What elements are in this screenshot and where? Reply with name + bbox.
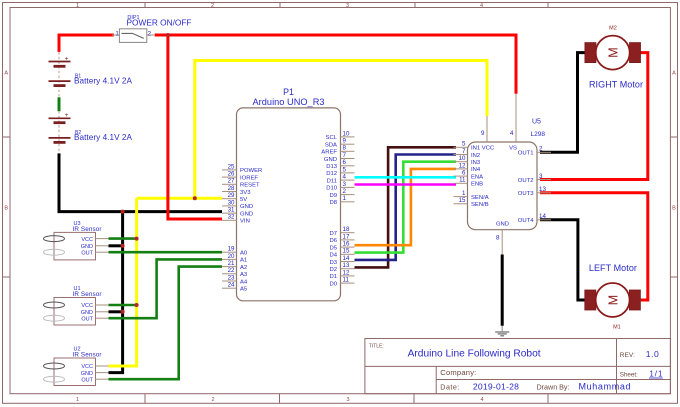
P1 pin 2 D9 [329,188,354,199]
svg-text:2019-01-28: 2019-01-28 [473,382,519,392]
svg-text:IN2: IN2 [471,153,480,159]
svg-text:4: 4 [510,130,514,137]
svg-text:5V: 5V [240,197,247,203]
P1 pin 4 D11 [327,174,355,185]
svg-text:IR Sensor: IR Sensor [73,226,102,233]
svg-text:Muhammad: Muhammad [579,382,631,392]
svg-text:GND: GND [240,204,253,210]
svg-text:IR Sensor: IR Sensor [73,291,102,298]
svg-text:A4: A4 [240,279,248,285]
svg-text:D10: D10 [326,186,338,192]
U2 pin VCC [81,364,108,370]
svg-text:4: 4 [480,3,483,9]
svg-text:9: 9 [481,130,485,137]
P1 pin 20 A1 [222,253,247,264]
junction J4 [135,237,139,241]
svg-text:30: 30 [228,199,235,206]
U2 pin GND [81,371,109,377]
svg-text:IOREF: IOREF [240,175,258,181]
svg-text:14: 14 [539,213,546,220]
svg-text:D1: D1 [329,274,337,280]
svg-text:29: 29 [228,192,235,199]
svg-text:Sheet:: Sheet: [620,371,638,378]
junction J1 [166,33,170,37]
svg-text:VCC: VCC [81,237,93,243]
P1 pin 10 SCL [326,130,355,141]
svg-text:OUT2: OUT2 [518,178,534,184]
IC P1 Arduino UNO_R3 body [237,87,341,301]
wire: 5V to L298 VCC (yellow) [195,61,487,199]
svg-text:SDA: SDA [325,143,337,149]
svg-text:GND: GND [324,157,337,163]
P1 pin 23 A4 [222,274,248,285]
wire: switch pin 2 to L298 VS (red rail) [155,35,516,94]
svg-text:Arduino UNO_R3: Arduino UNO_R3 [253,97,325,107]
svg-text:+: + [65,112,69,119]
svg-text:A: A [672,70,676,76]
wire: D4 to IN3 (bright green) [355,162,457,253]
svg-text:2: 2 [211,3,214,9]
svg-text:POWER: POWER [240,168,262,174]
svg-text:20: 20 [228,253,235,260]
U3 pin VCC [81,237,108,243]
wire: U3 VCC link (green) [109,237,137,240]
svg-text:7: 7 [462,148,466,155]
wire: U2 OUT to A2 (dark green) [109,267,223,380]
svg-text:D9: D9 [329,193,337,199]
U1 pin GND [81,310,109,316]
U5 pin 9 VCC [481,116,495,152]
svg-text:Company:: Company: [440,368,476,377]
svg-text:GND: GND [240,211,253,217]
U5 pin 11 ENB [454,177,484,188]
junction J6 [135,303,139,307]
battery B2 [49,111,133,153]
svg-text:23: 23 [228,274,235,281]
svg-text:IN1: IN1 [471,146,480,152]
svg-text:21: 21 [228,260,235,267]
P1 pin 13 D2 [329,262,354,273]
wire: OUT3 to left motor - (red) [540,193,648,300]
svg-text:1: 1 [343,195,347,202]
svg-text:1: 1 [115,30,119,37]
svg-text:RESET: RESET [240,183,260,189]
P1 pin 31 GND [222,207,253,218]
svg-text:17: 17 [343,233,350,240]
svg-text:Arduino Line Following Robot: Arduino Line Following Robot [408,349,541,360]
P1 pin 18 D7 [329,226,354,237]
switch DIP1 POWER ON/OFF [112,15,192,42]
wire: OUT4 to left motor + (black) [540,220,585,300]
svg-text:D6: D6 [329,238,337,244]
svg-text:32: 32 [228,214,235,221]
svg-text:D3: D3 [329,260,337,266]
svg-text:13: 13 [343,262,350,269]
U5 pin 5 IN1 [454,141,481,152]
wire: 5V rail to IR sensors (yellow) [109,198,137,366]
svg-text:VIN: VIN [240,219,250,225]
svg-text:3: 3 [346,397,349,403]
wire: green link between battery B1 and B2 [58,97,61,111]
svg-text:M2: M2 [609,25,617,31]
U3 pin GND [81,244,109,250]
svg-text:ENB: ENB [471,182,483,188]
IR sensor U3 [44,221,102,260]
motor M1 LEFT Motor [585,263,641,331]
svg-text:OUT3: OUT3 [518,191,534,197]
P1 pin 14 D3 [329,255,354,266]
U5 pin 3 OUT2 [518,173,551,184]
svg-text:POWER ON/OFF: POWER ON/OFF [127,18,192,28]
svg-text:A0: A0 [240,251,248,257]
U5 pin 2 OUT1 [518,146,551,157]
svg-text:U5: U5 [532,119,541,126]
ground [495,326,509,336]
svg-text:A2: A2 [240,265,247,271]
svg-text:8: 8 [343,145,347,152]
svg-text:D7: D7 [329,231,337,237]
svg-text:12: 12 [459,162,466,169]
svg-text:OUT1: OUT1 [518,151,534,157]
svg-text:3V3: 3V3 [240,190,251,196]
svg-text:RIGHT Motor: RIGHT Motor [589,80,643,90]
svg-text:5: 5 [462,141,466,148]
svg-text:27: 27 [228,178,235,185]
svg-text:26: 26 [228,171,235,178]
svg-text:2: 2 [148,30,152,37]
svg-text:GND: GND [81,310,93,316]
P1 pin 1 D8 [329,195,354,206]
P1 pin 30 GND [222,199,253,210]
P1 pin 17 D6 [329,233,354,244]
svg-text:OUT: OUT [81,316,93,322]
wire: U1 GND link (black) [109,310,123,313]
svg-text:3: 3 [346,3,349,9]
wire: D5 to IN4 (orange) [355,169,457,245]
battery B1 [49,52,133,97]
svg-text:1: 1 [76,3,79,9]
U5 pin 10 IN3 [454,155,481,166]
svg-text:9: 9 [343,138,347,145]
wire: battery B1 + to switch pin 1 (red) [59,35,114,52]
P1 pin 29 5V [222,192,247,203]
svg-text:Battery 4.1V 2A: Battery 4.1V 2A [74,76,133,85]
svg-text:19: 19 [228,246,235,253]
svg-text:Battery 4.1V 2A: Battery 4.1V 2A [74,133,133,142]
svg-text:ENA: ENA [471,174,483,180]
P1 pin 19 A0 [222,246,248,257]
svg-text:1: 1 [462,190,466,197]
motor M2 RIGHT Motor [585,25,643,89]
svg-text:VCC: VCC [81,303,93,309]
P1 pin 8 AREF [321,145,354,156]
wire: U1 VCC link (green) [109,304,137,307]
junction J3 [121,210,125,214]
P1 pin 28 3V3 [222,185,251,196]
P1 pin 6 D13 [326,159,354,170]
U5 pin 4 VS [509,94,517,152]
svg-text:28: 28 [228,185,235,192]
wire: 5V to Arduino pin 29 (yellow) [137,197,222,200]
wire: battery B2 - to Arduino GND (black) [59,153,222,211]
wire: U3 GND link (black) [109,244,123,247]
U2 pin OUT [81,377,108,383]
P1 pin 7 GND [324,152,355,163]
svg-text:SEN/B: SEN/B [471,202,489,208]
svg-text:18: 18 [343,226,350,233]
svg-text:D5: D5 [329,245,337,251]
svg-text:24: 24 [228,282,235,289]
svg-text:B: B [672,205,676,211]
svg-text:6: 6 [343,159,347,166]
svg-text:AREF: AREF [321,150,337,156]
svg-text:SCL: SCL [326,135,338,141]
svg-text:OUT: OUT [81,250,93,256]
wire: D3 to IN2 (navy) [355,155,457,260]
P1 pin 12 D1 [329,269,354,280]
svg-text:GND: GND [496,222,509,228]
P1 pin 22 A3 [222,267,248,278]
svg-text:1.0: 1.0 [646,349,659,359]
svg-text:OUT: OUT [81,377,93,383]
P1 pin 9 SDA [325,138,355,149]
U5 pin 13 OUT3 [518,186,551,197]
svg-text:D2: D2 [329,267,337,273]
svg-text:25: 25 [228,163,235,170]
svg-text:SEN/A: SEN/A [471,195,489,201]
svg-text:7: 7 [343,152,347,159]
svg-text:A: A [4,70,8,76]
svg-text:14: 14 [343,255,350,262]
svg-text:IR Sensor: IR Sensor [73,352,102,359]
svg-text:OUT4: OUT4 [518,218,534,224]
svg-text:13: 13 [539,186,546,193]
U1 pin VCC [81,303,108,309]
P1 pin 3 D10 [326,181,354,192]
wire: L298 GND pin 8 to ground (black) [501,255,504,326]
svg-text:A1: A1 [240,258,247,264]
svg-text:+: + [65,56,69,63]
svg-text:16: 16 [343,241,350,248]
U5 pin 7 IN2 [454,148,481,159]
svg-text:D12: D12 [326,171,337,177]
U1 pin OUT [81,316,108,322]
svg-text:GND: GND [81,244,93,250]
title block [365,339,671,394]
svg-text:1/1: 1/1 [649,369,663,378]
U5 pin 14 OUT4 [518,213,551,224]
P1 pin 16 D5 [329,241,354,252]
svg-text:Drawn By:: Drawn By: [537,383,570,392]
svg-text:15: 15 [459,197,466,204]
U5 pin 15 SEN/B [454,197,489,208]
U3 pin OUT [81,250,108,256]
wire: D10 to ENB (magenta) [355,183,457,186]
svg-text:D13: D13 [326,164,338,170]
junction J7 [121,310,125,314]
svg-text:1: 1 [76,397,79,403]
U5 pin 1 SEN/A [454,190,489,201]
IC U5 L298 body [468,119,546,230]
wire: U3 OUT to A0 (dark green) [109,251,223,254]
wire: OUT2 to right motor - (red) [540,53,648,180]
svg-text:10: 10 [343,130,350,137]
svg-text:4: 4 [480,397,483,403]
U5 pin 8 GND [496,222,509,255]
P1 pin 27 RESET [222,178,260,189]
svg-text:D0: D0 [329,281,337,287]
svg-text:2: 2 [343,188,347,195]
svg-text:Date:: Date: [440,383,459,392]
svg-text:VCC: VCC [81,364,93,370]
svg-text:3: 3 [539,173,543,180]
svg-text:D4: D4 [329,253,337,259]
svg-text:VCC: VCC [482,146,495,152]
svg-text:2: 2 [539,146,543,153]
wire: D2 to IN1 (dark brown) [355,147,457,267]
wire: U1 OUT to A1 (dark green) [109,259,223,318]
P1 pin 32 VIN [222,214,250,225]
svg-text:11: 11 [459,177,466,184]
svg-text:8: 8 [496,234,500,241]
junction J2 [193,196,197,200]
svg-text:D11: D11 [327,178,337,184]
svg-text:10: 10 [459,155,466,162]
P1 pin 5 D12 [326,166,354,177]
wire: OUT1 to right motor + (black) [540,53,585,153]
svg-text:IN3: IN3 [471,160,481,166]
svg-text:4: 4 [343,174,347,181]
svg-text:12: 12 [343,269,350,276]
IR sensor U2 [44,347,102,386]
U5 pin 6 ENA [454,170,484,181]
U5 pin 12 IN4 [454,162,481,173]
svg-text:B: B [4,205,8,211]
P1 pin 15 D4 [329,248,354,259]
svg-text:31: 31 [228,207,235,214]
wire: D11 to ENA (cyan) [355,176,457,179]
svg-text:M1: M1 [613,325,621,331]
svg-text:15: 15 [343,248,350,255]
svg-text:A3: A3 [240,272,248,278]
svg-text:5: 5 [343,166,347,173]
svg-text:6: 6 [462,170,466,177]
wire: GND rail to IR sensors (black) [109,212,123,373]
P1 pin 26 IOREF [222,171,258,182]
svg-text:2: 2 [211,397,214,403]
IR sensor U1 [44,286,102,325]
svg-text:11: 11 [343,277,350,284]
P1 pin 25 POWER [222,163,262,174]
svg-text:22: 22 [228,267,235,274]
junction J5 [121,244,125,248]
svg-text:M: M [606,47,620,57]
svg-text:P1: P1 [283,87,294,97]
svg-text:REV:: REV: [620,352,635,359]
svg-text:A5: A5 [240,287,248,293]
svg-text:3: 3 [343,181,347,188]
svg-text:IN4: IN4 [471,167,481,173]
svg-text:TITLE:: TITLE: [369,344,384,350]
svg-text:VS: VS [509,146,517,152]
P1 pin 11 D0 [329,277,354,288]
P1 pin 24 A5 [222,282,248,293]
wire: VIN from power rail (red) [168,35,222,219]
svg-text:M: M [606,295,620,305]
svg-text:LEFT Motor: LEFT Motor [589,263,637,273]
svg-text:L298: L298 [531,131,546,138]
P1 pin 21 A2 [222,260,247,271]
svg-text:GND: GND [81,371,93,377]
svg-text:D8: D8 [329,200,337,206]
